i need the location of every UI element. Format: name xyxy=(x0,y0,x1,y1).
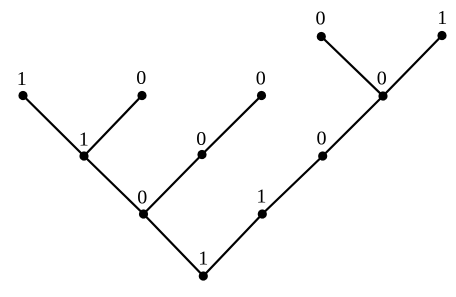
svg-text:0: 0 xyxy=(377,67,387,89)
svg-text:1: 1 xyxy=(79,128,89,150)
node root G label 1 xyxy=(198,248,208,281)
node I label 0 xyxy=(317,127,328,160)
svg-text:0: 0 xyxy=(196,128,206,150)
node leaf A label 1 xyxy=(17,68,28,100)
svg-text:0: 0 xyxy=(136,67,146,89)
svg-text:0: 0 xyxy=(316,8,326,30)
wire branch E-D-F xyxy=(144,96,262,215)
node F label 0 xyxy=(137,186,148,218)
node leaf E label 0 xyxy=(256,67,266,100)
node H label 1 xyxy=(256,186,267,219)
node C label 1 xyxy=(79,128,89,160)
svg-text:1: 1 xyxy=(17,68,27,90)
wire left outer edge A-C-F-G xyxy=(23,96,203,277)
svg-text:0: 0 xyxy=(137,186,147,208)
wire branch J-L xyxy=(383,36,442,97)
svg-text:0: 0 xyxy=(256,67,266,89)
node J label 0 xyxy=(377,67,388,100)
node leaf L label 1 xyxy=(437,7,447,40)
wire right outer edge G-H-I-J xyxy=(203,96,383,276)
node D label 0 xyxy=(196,128,206,159)
svg-text:1: 1 xyxy=(256,186,266,208)
svg-text:0: 0 xyxy=(317,127,327,149)
wire branch B-C xyxy=(84,96,142,157)
wire branch J-K xyxy=(321,37,383,97)
svg-text:1: 1 xyxy=(198,248,208,270)
svg-text:1: 1 xyxy=(437,7,447,29)
node leaf K label 0 xyxy=(316,8,326,41)
node leaf B label 0 xyxy=(136,67,146,100)
